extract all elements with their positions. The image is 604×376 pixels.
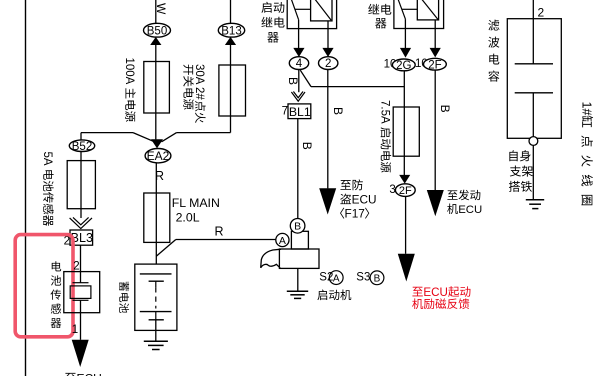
svg-text:EA2: EA2 bbox=[147, 149, 170, 163]
starter pinion bbox=[261, 249, 281, 268]
ground (bracket) bbox=[526, 199, 544, 201]
wire node4 diagonal bbox=[300, 70, 311, 86]
wire BL3 to sensor bbox=[80, 245, 82, 283]
wire cap bottom bbox=[532, 93, 534, 137]
wire BL1 to starter B bbox=[297, 119, 299, 219]
wire battery to ground bbox=[155, 320, 157, 342]
capacitor plate 2 bbox=[515, 92, 553, 94]
battery 蓄电池 bbox=[135, 264, 177, 330]
wire node2 down bbox=[327, 70, 329, 189]
svg-text:2F: 2F bbox=[428, 59, 441, 71]
node 2 bbox=[319, 57, 338, 70]
label B (starter wire) bbox=[300, 142, 314, 150]
wire B50 to fuse bbox=[155, 45, 157, 139]
svg-text:ECU: ECU bbox=[77, 371, 102, 376]
svg-text:FL MAIN: FL MAIN bbox=[172, 196, 220, 210]
arrow into 102G bbox=[400, 48, 411, 58]
fuse FL MAIN bbox=[144, 193, 170, 242]
connector BL1 bbox=[288, 104, 311, 119]
wire diagonal to R bbox=[156, 240, 176, 257]
svg-text:2: 2 bbox=[64, 236, 70, 248]
arrow into 2 bbox=[322, 48, 333, 57]
connector chevron BL1 bbox=[291, 92, 305, 101]
label 继电器 bbox=[368, 4, 379, 14]
svg-text:1: 1 bbox=[72, 324, 78, 336]
wire starter to ground bbox=[297, 268, 299, 291]
arrow to ECU (sensor) bbox=[72, 340, 89, 367]
label B (node4) bbox=[286, 77, 300, 85]
ground (battery) bbox=[144, 340, 168, 342]
starter terminal A bbox=[276, 233, 289, 246]
starter terminal B bbox=[290, 219, 305, 234]
svg-text:7.5A: 7.5A bbox=[379, 100, 391, 124]
node EA2 bbox=[145, 149, 171, 163]
svg-text:2: 2 bbox=[325, 58, 331, 70]
starter solenoid bbox=[291, 231, 308, 249]
arrow into B50 bbox=[150, 37, 161, 45]
wire B52 to BL3 bbox=[80, 151, 82, 218]
connector BL3 bbox=[70, 230, 93, 245]
wire 2F to arrow bbox=[405, 196, 407, 253]
sensor plate top bbox=[73, 282, 89, 284]
svg-text:B52: B52 bbox=[72, 141, 92, 153]
svg-text:B50: B50 bbox=[147, 25, 167, 37]
wire R to starter bbox=[176, 239, 276, 241]
ground (starter) bbox=[287, 290, 308, 292]
label 30A 2#点火开关电源 bbox=[193, 64, 206, 123]
svg-text:2.0L: 2.0L bbox=[176, 211, 200, 225]
svg-text:B13: B13 bbox=[221, 25, 241, 37]
wire W to B50 bbox=[155, 0, 157, 24]
node 2F (bottom) bbox=[395, 184, 415, 197]
wire B13 to fuse bbox=[230, 45, 232, 133]
svg-text:A: A bbox=[333, 273, 340, 284]
svg-text:ECU: ECU bbox=[423, 286, 447, 299]
relay 继电器 bbox=[394, 0, 444, 29]
label 电池传感器 bbox=[52, 261, 61, 271]
svg-text:BL1: BL1 bbox=[289, 105, 311, 119]
label 滤波电容 bbox=[488, 20, 499, 31]
wire bus to EA2 bbox=[81, 132, 133, 134]
wire node4 down bbox=[298, 70, 300, 93]
svg-text:R: R bbox=[215, 225, 224, 239]
connector chevron BL3 bbox=[70, 218, 92, 229]
arrow 至ECU起动机励磁反馈 bbox=[398, 254, 415, 282]
svg-text:30A 2#: 30A 2# bbox=[193, 64, 205, 100]
wire to B52 bbox=[80, 133, 82, 141]
wire sensor to arrow bbox=[80, 300, 82, 340]
arrow into 4 bbox=[293, 48, 304, 57]
arrow into 102F bbox=[430, 48, 441, 58]
node 2F bbox=[424, 58, 447, 70]
fuse 100A bbox=[144, 62, 170, 114]
svg-text:B: B bbox=[438, 105, 452, 113]
fuse 7.5A bbox=[393, 107, 419, 156]
svg-text:100A: 100A bbox=[123, 58, 135, 85]
capacitor box bbox=[507, 19, 561, 139]
wire relay1 pin2 bbox=[327, 21, 329, 48]
terminal circle bbox=[529, 137, 538, 146]
wire cap top bbox=[532, 0, 534, 64]
wire relay1 pin4 bbox=[298, 20, 300, 49]
svg-text:ECU: ECU bbox=[458, 204, 482, 216]
highlight box (red) bbox=[15, 235, 73, 337]
svg-text:2F: 2F bbox=[399, 185, 412, 197]
arrow into EA2 bbox=[151, 139, 163, 148]
wire relay2 pin102F bbox=[434, 20, 436, 48]
wire (left border line) bbox=[25, 0, 27, 376]
node B52 bbox=[69, 140, 94, 152]
svg-text:W: W bbox=[154, 3, 168, 15]
label B (node2) bbox=[331, 107, 345, 115]
label 蓄电池 bbox=[119, 282, 129, 313]
svg-text:2: 2 bbox=[73, 260, 79, 272]
wire 2G to fuse bbox=[403, 71, 405, 175]
relay 启动继电器 bbox=[287, 0, 336, 29]
svg-text:B: B bbox=[374, 274, 381, 285]
wire 102F down bbox=[434, 70, 436, 190]
svg-text:1#: 1# bbox=[579, 102, 593, 116]
node 2G bbox=[392, 59, 415, 71]
svg-text:5A: 5A bbox=[41, 152, 53, 166]
arrow 至发动机ECU bbox=[427, 190, 444, 216]
label 至ECU (clipped) bbox=[65, 373, 76, 376]
wire B13 top bbox=[230, 0, 232, 24]
svg-text:B: B bbox=[331, 107, 345, 115]
svg-text:B: B bbox=[300, 142, 314, 150]
svg-text:ECU: ECU bbox=[352, 193, 377, 207]
svg-text:7: 7 bbox=[282, 105, 288, 117]
fuse 30A bbox=[219, 65, 246, 116]
label 至ECU起动机励磁反馈 (red) bbox=[412, 287, 422, 297]
sensor plate bottom bbox=[73, 299, 89, 301]
node B13 bbox=[218, 23, 244, 37]
label 1#缸点火线圈 bbox=[579, 102, 593, 206]
node B50 bbox=[144, 23, 171, 37]
label 至防盗ECU〈F17〉 bbox=[340, 180, 351, 190]
wire EA2 to battery bbox=[155, 163, 157, 264]
label 启动继电器 bbox=[261, 2, 271, 13]
label 自身支架搭铁 bbox=[509, 150, 517, 161]
wire to bracket ground bbox=[532, 145, 534, 199]
label 至发动机ECU bbox=[447, 190, 457, 199]
arrow into B13 bbox=[225, 37, 236, 45]
label W bbox=[154, 3, 168, 15]
capacitor plate 1 bbox=[515, 63, 553, 65]
svg-text:A: A bbox=[279, 235, 286, 247]
svg-text:4: 4 bbox=[296, 58, 303, 70]
wire relay2 pin102G bbox=[404, 19, 406, 48]
svg-text:F17: F17 bbox=[345, 207, 365, 221]
arrow into 2F bottom bbox=[399, 175, 410, 184]
label 7.5A 启动电源 bbox=[379, 100, 392, 173]
sensor shunt element bbox=[70, 286, 91, 299]
label 启动机 bbox=[317, 290, 327, 301]
svg-text:B: B bbox=[294, 221, 301, 233]
svg-text:2: 2 bbox=[538, 6, 545, 20]
label 100A 主电源 bbox=[123, 58, 136, 122]
label B (102F) bbox=[438, 105, 452, 113]
svg-text:2G: 2G bbox=[396, 60, 411, 72]
starter body bbox=[279, 249, 319, 268]
arrow 至防盗ECU bbox=[319, 188, 336, 214]
node 4 bbox=[289, 57, 308, 70]
svg-text:B: B bbox=[286, 77, 300, 85]
fuse 5A bbox=[67, 161, 95, 209]
svg-text:S3: S3 bbox=[356, 272, 370, 284]
label 5A 电池传感器 bbox=[41, 152, 54, 226]
battery sensor box bbox=[64, 272, 100, 313]
